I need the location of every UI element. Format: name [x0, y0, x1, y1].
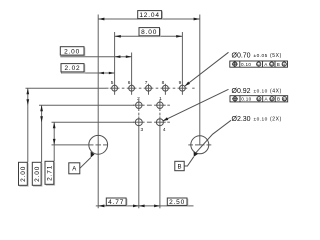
svg-text:8.00: 8.00: [141, 29, 157, 36]
svg-text:0.10: 0.10: [241, 62, 251, 67]
svg-text:M: M: [257, 98, 260, 102]
svg-text:±0.10: ±0.10: [254, 117, 268, 123]
svg-text:9: 9: [179, 80, 182, 86]
svg-text:2.00: 2.00: [34, 166, 41, 182]
svg-text:±0.05: ±0.05: [254, 53, 268, 59]
svg-text:B: B: [277, 62, 280, 67]
svg-text:8: 8: [162, 80, 165, 86]
svg-text:2.71: 2.71: [47, 165, 54, 181]
svg-text:12.04: 12.04: [139, 12, 160, 19]
svg-text:(4X): (4X): [270, 88, 282, 94]
svg-text:A: A: [72, 167, 76, 173]
svg-text:A: A: [264, 62, 268, 67]
svg-text:±0.10: ±0.10: [254, 88, 268, 94]
svg-text:6: 6: [128, 80, 131, 86]
svg-text:M: M: [270, 63, 273, 67]
svg-text:2.00: 2.00: [20, 166, 27, 182]
svg-text:M: M: [257, 63, 260, 67]
svg-text:2: 2: [137, 96, 140, 102]
svg-text:2.00: 2.00: [64, 48, 80, 55]
svg-text:M: M: [270, 98, 273, 102]
svg-text:Ø0.92: Ø0.92: [232, 88, 251, 95]
svg-text:1: 1: [159, 96, 162, 102]
svg-text:(2X): (2X): [270, 117, 282, 123]
svg-text:B: B: [277, 97, 280, 102]
svg-text:4.77: 4.77: [108, 199, 124, 206]
svg-text:(5X): (5X): [270, 53, 282, 59]
svg-text:M: M: [283, 98, 286, 102]
svg-text:7: 7: [145, 80, 148, 86]
svg-text:4: 4: [163, 127, 166, 133]
svg-text:A: A: [265, 97, 269, 102]
svg-text:3: 3: [140, 127, 143, 133]
svg-text:2.50: 2.50: [169, 199, 185, 206]
svg-text:2.02: 2.02: [64, 65, 80, 72]
svg-text:0.10: 0.10: [241, 97, 251, 102]
svg-text:M: M: [283, 63, 286, 67]
svg-text:Ø0.70: Ø0.70: [232, 53, 251, 60]
svg-text:Ø2.30: Ø2.30: [232, 116, 251, 123]
svg-text:5: 5: [111, 80, 114, 86]
svg-text:B: B: [177, 164, 181, 170]
